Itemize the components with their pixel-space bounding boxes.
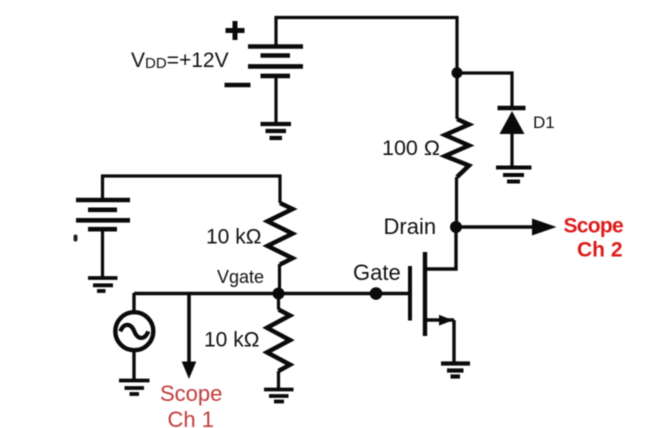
svg-text:VDD=+12V: VDD=+12V xyxy=(131,49,229,72)
wire left battery to resistor R2 top xyxy=(103,176,281,203)
label Scope Ch 2 xyxy=(564,215,624,262)
transistor Q1 gate bar xyxy=(408,266,412,321)
resistor R3 10k lower xyxy=(267,293,290,388)
ground under battery B2 xyxy=(88,278,118,291)
ground under VDD battery xyxy=(261,124,292,138)
svg-text:10 kΩ: 10 kΩ xyxy=(204,329,259,352)
node Vgate junction dot xyxy=(273,288,285,300)
svg-text:Vgate: Vgate xyxy=(217,267,264,287)
wire source to ground xyxy=(452,320,455,363)
wire node A to resistor R1 xyxy=(455,73,458,119)
svg-text:Ch 2: Ch 2 xyxy=(577,239,623,262)
wire resistor R1 to Drain node xyxy=(455,177,458,227)
wire Drain node down to transistor drain branch xyxy=(425,227,456,269)
wire node A to diode D1 xyxy=(457,73,512,108)
node Gate junction dot xyxy=(370,287,383,300)
resistor R1 100 ohm xyxy=(445,119,469,177)
wire VDD battery negative to ground xyxy=(274,76,277,123)
minus terminal label xyxy=(225,83,251,88)
resistor R2 10k upper xyxy=(268,203,293,265)
wire battery B2 negative to ground xyxy=(101,229,104,277)
ground under source V1 xyxy=(119,381,150,395)
arrow Drain to scope ch2 xyxy=(461,219,557,236)
plus terminal label xyxy=(226,21,245,40)
diode D1 xyxy=(498,108,526,134)
battery B2 plates xyxy=(76,200,130,229)
wire resistor R2 to Vgate node xyxy=(278,264,281,293)
transistor Q1 source branch with arrow xyxy=(425,315,454,326)
svg-text:Ch 1: Ch 1 xyxy=(168,407,214,428)
stray mark xyxy=(74,235,78,242)
svg-text:10 kΩ: 10 kΩ xyxy=(206,226,261,249)
svg-text:100 Ω: 100 Ω xyxy=(382,136,440,160)
svg-text:D1: D1 xyxy=(533,113,555,132)
ground under diode xyxy=(496,168,532,182)
ground under transistor xyxy=(441,364,470,377)
svg-text:Scope: Scope xyxy=(564,215,624,238)
arrow down to scope ch1 xyxy=(182,294,197,380)
ground under resistor R3 xyxy=(264,390,294,402)
node Drain junction dot xyxy=(450,221,462,233)
node A junction dot xyxy=(452,67,463,78)
wire main horizontal (source to gate) xyxy=(134,292,410,295)
svg-text:Drain: Drain xyxy=(384,214,437,239)
source V1 sine generator xyxy=(115,293,153,380)
wire top rail from VDD battery to node A xyxy=(276,18,457,74)
transistor Q1 channel bar xyxy=(423,252,427,336)
wire diode to ground xyxy=(510,134,513,167)
svg-text:Scope: Scope xyxy=(160,381,222,406)
svg-text:Gate: Gate xyxy=(353,260,401,285)
battery VDD plates xyxy=(248,47,303,76)
label Scope Ch 1 xyxy=(160,381,222,428)
